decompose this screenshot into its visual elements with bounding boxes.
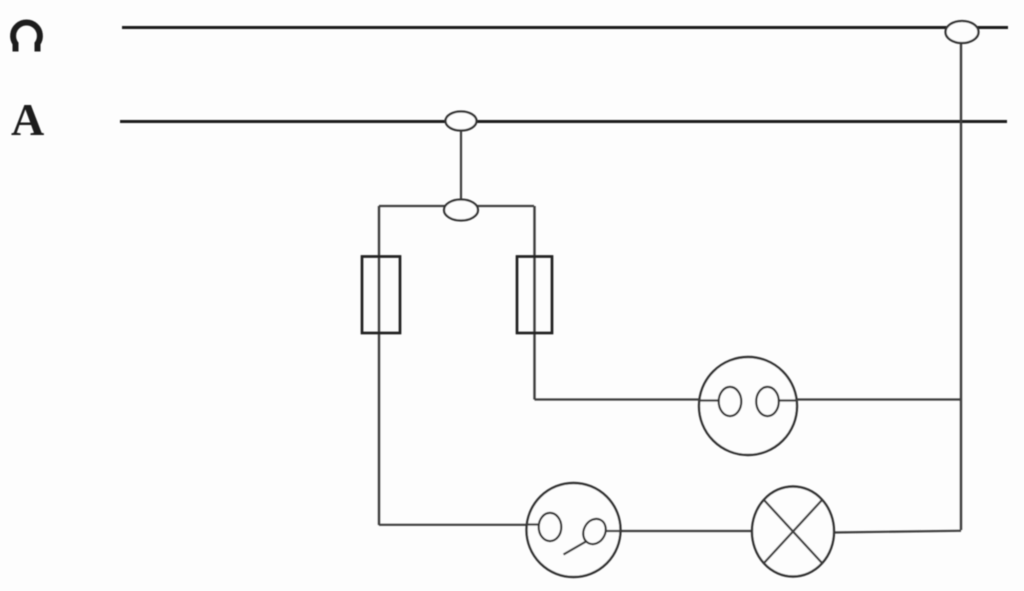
switch S1 body [527,483,621,577]
fuse F2 (right) [517,257,552,334]
wire: link between tap ellipses [460,128,462,202]
wire: switch S1 internal stubs [527,525,621,532]
lamp H1 body [752,487,834,577]
node: tap ellipse on top bus [946,21,979,43]
node: lower tap ellipse [444,200,478,221]
switch S1 contact right (tilted) [579,515,610,548]
switch S1 lever tail [564,542,587,555]
wire: switch S1 to lamp H1 [600,530,753,532]
wire: right vertical drop from top bus [960,42,962,530]
socket X1 pin right [756,387,779,416]
wire: second bus line A [120,120,1007,123]
node: tap ellipse on bus A [446,112,477,131]
wire: fuse F2 to socket X1 [535,398,962,400]
socket X1 body [699,357,797,455]
wire: top bus line O [122,26,1008,29]
wire: left branch to switch S1 [379,524,545,526]
wire: right branch vertical [533,206,535,400]
fuse F1 (left) [362,257,400,334]
wire: left branch vertical [378,206,380,525]
wire: lamp H1 to right drop [834,531,961,533]
wire: socket X1 internal stubs [698,399,798,401]
svg-text:A: A [11,94,44,145]
socket X1 pin left [719,387,742,416]
lamp H1 cross [764,500,822,563]
label O (neutral bus) [13,23,40,52]
switch S1 contact left [539,513,562,541]
wire: horizontal branch feed [379,205,534,207]
